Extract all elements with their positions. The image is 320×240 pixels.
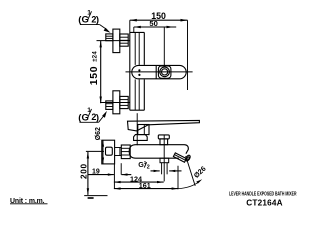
svg-text:50: 50	[149, 19, 157, 28]
svg-text:Ø62: Ø62	[95, 127, 102, 140]
svg-text:): )	[96, 15, 99, 26]
svg-text:161: 161	[139, 181, 151, 190]
svg-text:LEVER HANDLE EXPOSED BATH MIXE: LEVER HANDLE EXPOSED BATH MIXER	[229, 192, 297, 198]
svg-text:CT2164A: CT2164A	[246, 199, 282, 208]
svg-text:2: 2	[147, 165, 150, 171]
svg-text:200: 200	[80, 163, 89, 179]
svg-text:19: 19	[92, 169, 100, 176]
svg-text:±24: ±24	[92, 51, 98, 62]
svg-text:150: 150	[89, 66, 100, 85]
svg-text:): )	[96, 112, 99, 123]
svg-text:Ø26: Ø26	[192, 165, 207, 180]
